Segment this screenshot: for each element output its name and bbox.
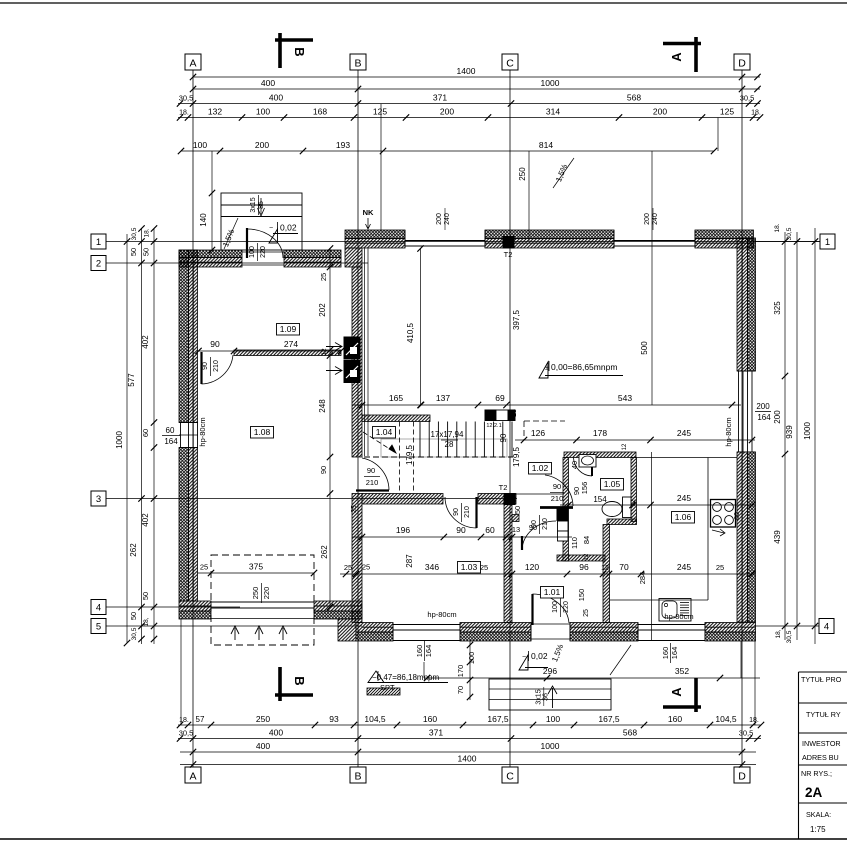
svg-text:164: 164 [757,413,771,422]
svg-text:0,02: 0,02 [531,651,548,661]
svg-text:200: 200 [756,402,770,411]
svg-text:50: 50 [129,248,138,256]
svg-text:1.03: 1.03 [461,562,478,572]
svg-text:ADRES BU: ADRES BU [802,753,839,762]
svg-text:210: 210 [464,506,471,518]
svg-text:25: 25 [511,409,518,417]
svg-text:104,5: 104,5 [364,714,386,724]
svg-text:375: 375 [249,562,263,572]
svg-text:1,5%: 1,5% [554,163,569,183]
svg-text:90: 90 [572,487,581,495]
svg-text:160: 160 [661,647,670,660]
svg-text:50: 50 [129,612,138,620]
svg-text:179,5: 179,5 [512,446,521,467]
svg-text:210: 210 [213,360,220,372]
svg-text:30,5: 30,5 [739,729,754,738]
svg-text:NK: NK [363,208,374,217]
svg-text:60: 60 [485,525,495,535]
svg-text:12: 12 [630,499,637,507]
svg-text:160: 160 [668,714,682,724]
svg-text:120: 120 [525,562,539,572]
svg-text:−0,47=86,18mnpm: −0,47=86,18mnpm [372,673,439,682]
svg-text:250: 250 [251,587,260,600]
svg-text:4: 4 [824,622,829,633]
svg-text:5: 5 [96,622,101,633]
svg-text:69: 69 [495,393,505,403]
svg-text:93: 93 [329,714,339,724]
svg-text:90: 90 [456,525,466,535]
svg-text:262: 262 [129,543,138,557]
svg-text:402: 402 [141,513,150,527]
svg-text:352: 352 [675,666,689,676]
svg-text:314: 314 [546,107,560,117]
svg-text:12.2.1: 12.2.1 [486,423,501,429]
svg-text:70: 70 [456,686,465,694]
svg-text:167,5: 167,5 [487,714,509,724]
svg-text:1.06: 1.06 [675,512,692,522]
svg-text:70: 70 [619,562,629,572]
svg-text:125: 125 [720,107,734,117]
svg-text:30,5: 30,5 [786,630,793,643]
svg-text:167,5: 167,5 [598,714,620,724]
svg-text:30,5: 30,5 [131,227,138,240]
svg-text:12: 12 [321,348,328,356]
svg-text:1400: 1400 [457,66,476,76]
svg-text:371: 371 [429,728,443,738]
svg-text:200: 200 [436,213,443,225]
svg-text:200: 200 [644,213,651,225]
svg-text:400: 400 [256,741,270,751]
svg-text:60: 60 [734,512,741,520]
svg-text:B: B [292,47,307,56]
svg-text:410,5: 410,5 [406,322,415,343]
svg-text:3x15: 3x15 [536,689,543,704]
svg-text:84: 84 [582,536,591,544]
svg-text:TYTUŁ RY: TYTUŁ RY [806,710,841,719]
svg-text:90: 90 [367,466,375,475]
svg-text:1.09: 1.09 [280,324,297,334]
svg-text:274: 274 [284,339,298,349]
svg-text:90: 90 [210,339,220,349]
svg-text:179,5: 179,5 [405,444,414,465]
svg-text:154: 154 [593,495,607,504]
svg-text:40: 40 [570,461,579,469]
svg-text:568: 568 [623,728,637,738]
svg-text:hp-80cm: hp-80cm [427,610,456,619]
svg-text:1.01: 1.01 [544,587,561,597]
svg-text:25: 25 [351,505,358,513]
svg-text:577: 577 [127,373,136,387]
svg-text:18,: 18, [775,629,782,638]
svg-text:200: 200 [440,107,454,117]
svg-text:140: 140 [199,213,208,227]
svg-text:170: 170 [456,665,465,678]
svg-text:57: 57 [196,715,205,724]
svg-text:A: A [189,58,196,70]
svg-text:1000: 1000 [541,78,560,88]
svg-text:B: B [354,58,361,70]
svg-text:50: 50 [141,592,150,600]
svg-text:TYTUŁ PRO: TYTUŁ PRO [801,675,842,684]
svg-text:193: 193 [336,140,350,150]
svg-text:−: − [269,225,273,232]
svg-text:12: 12 [601,565,609,572]
svg-text:100: 100 [193,140,207,150]
svg-text:132: 132 [208,107,222,117]
svg-text:287: 287 [405,554,414,568]
svg-text:3: 3 [96,494,101,505]
svg-text:284: 284 [638,572,647,585]
svg-text:90: 90 [553,482,561,491]
svg-text:A: A [669,687,684,697]
svg-text:220: 220 [260,246,267,258]
svg-text:0,02: 0,02 [280,223,297,233]
svg-text:±: ± [545,365,549,372]
svg-text:200: 200 [653,107,667,117]
svg-text:85: 85 [258,201,265,209]
svg-text:60: 60 [141,429,150,437]
svg-text:18.: 18. [749,717,759,724]
svg-text:196: 196 [396,525,410,535]
svg-text:18.: 18. [774,223,781,232]
svg-text:B: B [292,676,307,685]
svg-text:250: 250 [518,167,527,181]
svg-text:hp-80cm: hp-80cm [724,417,733,446]
svg-text:126: 126 [531,428,545,438]
svg-text:1000: 1000 [803,422,812,440]
svg-text:165: 165 [389,393,403,403]
svg-text:402: 402 [141,335,150,349]
svg-text:1.05: 1.05 [604,479,621,489]
svg-text:3x15: 3x15 [250,197,257,212]
svg-text:C: C [506,771,514,783]
svg-text:1,5%: 1,5% [550,643,565,663]
svg-text:1.04: 1.04 [376,427,393,437]
svg-text:1.08: 1.08 [254,427,271,437]
svg-text:220: 220 [262,587,271,600]
svg-text:36: 36 [543,693,550,701]
svg-text:2: 2 [96,259,101,270]
svg-text:25: 25 [344,563,352,572]
svg-text:164: 164 [670,647,679,660]
svg-text:25: 25 [480,563,488,572]
svg-text:18.: 18. [144,228,151,237]
svg-text:25: 25 [319,273,328,281]
svg-text:18,: 18, [143,617,150,626]
svg-text:200: 200 [773,410,782,424]
svg-text:210: 210 [366,478,379,487]
svg-text:12: 12 [622,443,628,450]
svg-text:110: 110 [570,537,579,549]
svg-text:30,5: 30,5 [179,729,194,738]
svg-text:30,5: 30,5 [131,627,138,640]
svg-text:150: 150 [577,589,586,602]
svg-text:50: 50 [142,248,151,256]
svg-text:210: 210 [551,494,564,503]
svg-text:100: 100 [552,601,559,613]
svg-text:90: 90 [319,466,328,474]
svg-text:439: 439 [773,530,782,544]
svg-text:371: 371 [433,93,447,103]
svg-text:200: 200 [255,140,269,150]
svg-text:SKALA:: SKALA: [806,810,831,819]
svg-text:1: 1 [96,237,101,248]
svg-text:13: 13 [512,525,520,534]
svg-text:T2: T2 [504,250,513,259]
svg-text:1:75: 1:75 [810,825,826,834]
svg-text:245: 245 [677,493,691,503]
svg-text:hp-80cm: hp-80cm [198,417,207,446]
svg-text:1.02: 1.02 [532,463,549,473]
svg-text:18.: 18. [179,717,189,724]
svg-text:90: 90 [529,523,537,532]
svg-text:30,5: 30,5 [179,94,194,103]
svg-text:28: 28 [445,440,454,449]
svg-text:1000: 1000 [541,741,560,751]
svg-text:104,5: 104,5 [715,714,737,724]
svg-text:25: 25 [362,563,370,572]
svg-text:2A: 2A [805,785,823,800]
svg-text:25: 25 [200,563,208,572]
svg-text:125: 125 [373,107,387,117]
svg-text:296: 296 [543,666,557,676]
svg-text:156: 156 [580,482,589,495]
svg-text:C: C [506,58,514,70]
svg-text:202: 202 [318,303,327,317]
svg-text:0,00=86,65mnpm: 0,00=86,65mnpm [551,362,617,372]
svg-text:1400: 1400 [458,754,477,764]
svg-text:814: 814 [539,140,553,150]
svg-text:18.: 18. [751,110,761,117]
svg-text:100: 100 [546,714,560,724]
svg-text:245: 245 [677,562,691,572]
svg-text:A: A [669,52,684,62]
svg-text:164: 164 [424,645,433,658]
svg-text:250: 250 [256,714,270,724]
svg-text:NR RYS.;: NR RYS.; [801,769,832,778]
svg-text:262: 262 [320,545,329,559]
svg-text:1: 1 [825,237,830,248]
svg-text:178: 178 [593,428,607,438]
svg-text:B: B [354,771,361,783]
svg-text:100: 100 [467,652,476,665]
svg-text:30,5: 30,5 [786,227,793,240]
svg-text:400: 400 [269,728,283,738]
svg-text:168: 168 [313,107,327,117]
svg-text:543: 543 [618,393,632,403]
svg-text:D: D [738,771,746,783]
svg-text:25: 25 [716,563,724,572]
svg-text:60: 60 [166,426,175,435]
svg-text:INWESTOR: INWESTOR [802,739,841,748]
svg-text:96: 96 [579,562,589,572]
svg-text:164: 164 [164,437,178,446]
svg-text:568: 568 [627,93,641,103]
svg-text:90: 90 [453,508,460,516]
svg-text:90: 90 [202,362,209,370]
svg-text:17x17,94: 17x17,94 [431,430,464,439]
svg-text:1000: 1000 [115,431,124,449]
svg-text:210: 210 [542,518,549,530]
svg-text:50: 50 [513,506,522,514]
svg-text:D: D [738,58,746,70]
svg-text:220: 220 [563,601,570,613]
svg-text:30,5: 30,5 [740,94,755,103]
svg-text:137: 137 [436,393,450,403]
svg-text:100: 100 [249,246,256,258]
svg-text:90: 90 [499,433,508,442]
svg-text:400: 400 [261,78,275,88]
svg-text:400: 400 [269,93,283,103]
svg-text:397,5: 397,5 [512,309,521,330]
svg-text:939: 939 [785,425,794,439]
svg-text:4: 4 [96,603,101,614]
svg-text:160: 160 [415,645,424,658]
svg-text:325: 325 [773,301,782,315]
svg-text:A: A [189,771,196,783]
svg-text:12: 12 [584,553,590,560]
svg-text:18.: 18. [179,110,189,117]
svg-text:245: 245 [677,428,691,438]
svg-text:346: 346 [425,562,439,572]
svg-text:160: 160 [423,714,437,724]
svg-text:500: 500 [640,341,649,355]
svg-text:25: 25 [583,609,590,617]
svg-text:100: 100 [256,107,270,117]
svg-text:T2: T2 [499,483,508,492]
svg-text:hp-80cm: hp-80cm [664,612,693,621]
svg-text:248: 248 [318,399,327,413]
svg-text:−: − [522,654,526,661]
